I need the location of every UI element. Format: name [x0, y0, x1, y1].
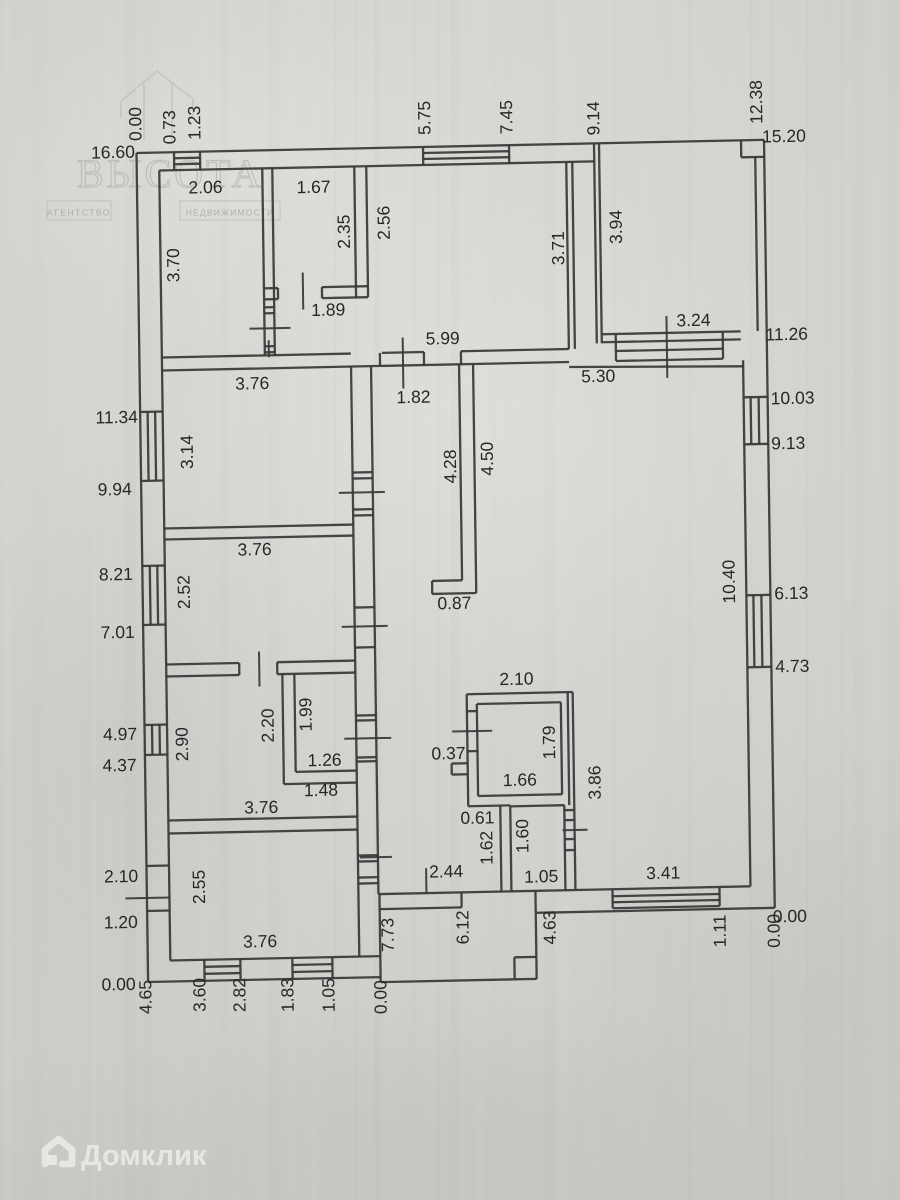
dimension tick left wall door	[125, 897, 170, 900]
wire exterior top wall inner face	[159, 161, 594, 170]
wall hall bottom upper face	[162, 354, 351, 358]
svg-text:1.89: 1.89	[311, 299, 345, 320]
wall wardrobe 1.99 bottom	[296, 771, 357, 772]
svg-text:1.48: 1.48	[304, 780, 338, 801]
wire exterior left wall outer face	[137, 153, 149, 982]
svg-text:3.76: 3.76	[243, 931, 277, 952]
svg-text:3.76: 3.76	[235, 373, 269, 394]
svg-text:2.55: 2.55	[189, 870, 209, 904]
window left wall (11.34-9.94)	[140, 410, 163, 413]
window left wall (4.97-4.37)	[145, 723, 168, 726]
wall toilet right inner	[564, 805, 565, 890]
svg-text:7.73: 7.73	[377, 918, 397, 952]
svg-text:0.73: 0.73	[159, 110, 179, 144]
svg-text:4.73: 4.73	[775, 656, 809, 677]
svg-text:1.79: 1.79	[539, 725, 559, 759]
dimension tick door kitchen	[342, 625, 388, 628]
wire exterior bottom-right wall inner face	[378, 886, 750, 894]
wire exterior right wall inner face upper	[755, 157, 757, 331]
dimension tick 2.44	[425, 868, 427, 893]
svg-text:2.20: 2.20	[257, 708, 277, 743]
svg-text:5.75: 5.75	[414, 101, 434, 135]
svg-text:11.26: 11.26	[765, 324, 808, 345]
dimension tick door room 2.55	[360, 856, 392, 859]
svg-text:10.40: 10.40	[718, 559, 739, 603]
wall bathroom bottom	[468, 804, 510, 807]
svg-text:3.76: 3.76	[237, 539, 271, 560]
svg-text:0.61: 0.61	[460, 807, 494, 828]
svg-text:8.21: 8.21	[99, 564, 133, 585]
window right wall (10.03-9.13)	[744, 396, 768, 399]
wall between rooms 2.90 and 2.55	[168, 817, 357, 821]
svg-text:1.62: 1.62	[476, 831, 496, 865]
dimension tick door toilet	[563, 829, 588, 832]
svg-text:4.50: 4.50	[477, 441, 497, 476]
svg-text:2.82: 2.82	[229, 978, 249, 1012]
svg-text:1.83: 1.83	[277, 978, 297, 1012]
svg-text:4.28: 4.28	[440, 449, 460, 483]
wall room 3.71 right side	[566, 162, 569, 349]
svg-text:4.97: 4.97	[103, 724, 137, 745]
wall toilet left	[500, 806, 501, 892]
window right wall (6.13-4.73)	[746, 594, 770, 597]
svg-text:9.14: 9.14	[583, 101, 603, 136]
dimension tick hall wall	[268, 340, 270, 357]
dimension tick door bathroom	[452, 730, 492, 733]
svg-text:1.20: 1.20	[104, 912, 139, 933]
wall bathroom left	[467, 694, 469, 806]
paper tonal blobs	[170, 170, 830, 690]
node top-right corner notch	[740, 140, 743, 157]
wall porch top inner	[380, 907, 462, 909]
svg-text:9.13: 9.13	[771, 433, 805, 454]
svg-text:0.00: 0.00	[101, 974, 136, 995]
wire exterior bottom-right wall outer face	[537, 908, 775, 913]
watermark: Domclick house icon	[45, 1139, 72, 1164]
door toilet jamb caps	[564, 809, 574, 812]
svg-text:3.24: 3.24	[676, 310, 711, 331]
svg-text:5.99: 5.99	[426, 328, 460, 349]
wall between rooms 3.14 and 2.52	[164, 525, 353, 529]
dimension tick door room 2.90	[344, 737, 391, 740]
wall central vertical left face	[351, 367, 359, 957]
flue notch 0.37	[452, 762, 468, 765]
wall corridor partition	[459, 364, 462, 580]
wire exterior top wall outer face	[137, 140, 765, 153]
svg-text:0.00: 0.00	[125, 107, 145, 142]
svg-text:2.52: 2.52	[174, 575, 194, 609]
wire exterior bottom-left wall outer face	[148, 977, 380, 982]
svg-text:1.66: 1.66	[503, 769, 537, 790]
door central wall room 3.14 caps	[353, 477, 373, 480]
svg-text:11.34: 11.34	[95, 407, 138, 428]
svg-text:0.87: 0.87	[437, 593, 471, 614]
watermark: АГЕНТСТВО box	[47, 201, 111, 220]
door room 2.06 jamb caps	[264, 306, 274, 309]
svg-text:3.76: 3.76	[244, 797, 278, 818]
wall toilet top	[510, 805, 564, 806]
wall room 3.94 bottom	[602, 331, 741, 334]
svg-text:1.05: 1.05	[524, 866, 558, 887]
sauna cabin box	[477, 702, 561, 704]
porch step	[514, 956, 536, 959]
door central wall room 2.90 caps	[356, 714, 376, 717]
svg-text:2.90: 2.90	[172, 727, 192, 762]
wire exterior left wall inner face	[159, 171, 170, 961]
door central wall room 2.55 caps	[358, 854, 378, 857]
window room 3.94 bottom (3.24)	[615, 334, 618, 361]
svg-text:7.45: 7.45	[496, 100, 516, 134]
watermark: agency logo house roof	[121, 71, 193, 140]
door central wall kitchen caps	[354, 606, 374, 609]
wall closet right side	[354, 166, 356, 297]
svg-text:4.37: 4.37	[102, 755, 136, 776]
door left wall (2.10-1.20) jamb caps	[146, 864, 169, 867]
svg-text:7.01: 7.01	[101, 622, 135, 643]
paper streak texture	[4, 0, 11, 1200]
svg-text:2.06: 2.06	[188, 177, 222, 198]
wire exterior bottom-left wall inner face	[170, 956, 380, 960]
svg-text:1.67: 1.67	[296, 177, 330, 198]
window bottom wall (3.60-2.82)	[203, 960, 206, 981]
svg-text:1.26: 1.26	[307, 749, 341, 770]
wall central vertical right face	[371, 366, 378, 894]
wall bathroom right	[573, 692, 576, 890]
wall hall bottom lower face	[162, 362, 569, 371]
wire living room top face	[569, 363, 743, 370]
svg-text:1.11: 1.11	[709, 914, 729, 947]
wire exterior right wall outer face	[764, 140, 775, 908]
svg-text:6.12: 6.12	[452, 910, 472, 944]
svg-text:1.23: 1.23	[184, 106, 204, 140]
svg-text:2.10: 2.10	[499, 668, 534, 689]
svg-text:2.44: 2.44	[429, 861, 464, 882]
window bottom wall 3.41	[611, 889, 614, 908]
svg-text:2.10: 2.10	[104, 866, 139, 887]
wall closet bottom	[322, 285, 368, 288]
svg-text:3.71: 3.71	[548, 231, 568, 265]
svg-text:3.94: 3.94	[606, 209, 626, 244]
svg-text:16.60: 16.60	[91, 142, 135, 163]
porch door stub left	[460, 892, 463, 907]
dimension tick door room 2.06	[249, 327, 290, 330]
dimension tick door 1.82	[402, 337, 405, 388]
svg-text:3.70: 3.70	[163, 248, 183, 283]
svg-text:0.37: 0.37	[431, 743, 465, 764]
svg-text:3.14: 3.14	[177, 435, 197, 470]
svg-text:6.13: 6.13	[774, 583, 808, 604]
svg-text:12.38: 12.38	[746, 80, 767, 124]
svg-text:1.60: 1.60	[512, 819, 532, 854]
svg-text:Домклик: Домклик	[81, 1140, 207, 1172]
svg-text:2.56: 2.56	[373, 206, 393, 240]
wall bathroom top	[467, 692, 573, 694]
svg-text:4.65: 4.65	[135, 980, 155, 1014]
svg-text:1.82: 1.82	[396, 387, 430, 408]
svg-text:3.86: 3.86	[584, 765, 604, 799]
svg-text:НЕДВИЖИМОСТИ: НЕДВИЖИМОСТИ	[186, 207, 275, 217]
dimension tick door closet 1.89	[302, 273, 305, 310]
door hall 1.82 jamb caps	[379, 353, 381, 366]
window top-left small (0.73-1.23)	[173, 152, 176, 170]
wire exterior right wall inner face lower	[743, 360, 750, 886]
wall room 3.94 left side	[594, 143, 597, 343]
wall porch bottom	[381, 979, 537, 982]
wall porch right	[535, 891, 536, 979]
svg-text:1.99: 1.99	[295, 697, 315, 731]
svg-text:3.41: 3.41	[646, 862, 680, 883]
svg-text:9.94: 9.94	[98, 479, 133, 500]
svg-text:15.20: 15.20	[762, 126, 806, 147]
svg-text:0.00: 0.00	[370, 980, 390, 1015]
window bottom wall (1.83-1.05)	[291, 958, 294, 979]
svg-text:2.35: 2.35	[334, 214, 354, 248]
wall corridor partition foot 0.87	[432, 579, 462, 582]
wall porch left 7.73	[379, 894, 380, 982]
wall between rooms 2.52 and 2.90 with door	[166, 663, 239, 665]
dimension tick door room 2.52-2.90	[258, 652, 260, 687]
svg-text:10.03: 10.03	[771, 387, 815, 408]
svg-text:5.30: 5.30	[581, 366, 616, 387]
door closet jamb caps	[264, 287, 278, 290]
svg-text:4.63: 4.63	[539, 910, 559, 944]
svg-text:1.05: 1.05	[318, 978, 338, 1012]
dimension tick window 3.24	[665, 316, 668, 378]
wall wardrobe 1.99 vertical	[282, 674, 284, 784]
wall room 2.06 right side	[262, 168, 265, 355]
watermark: НЕДВИЖИМОСТИ box	[180, 201, 280, 220]
svg-text:0.00: 0.00	[763, 913, 783, 948]
window left wall (8.21-7.01)	[142, 564, 165, 567]
door bathroom caps	[467, 710, 476, 712]
svg-text:АГЕНТСТВО: АГЕНТСТВО	[47, 207, 111, 217]
window top middle (5.75-7.45)	[422, 147, 425, 165]
dimension tick door room 3.14	[339, 491, 385, 494]
svg-text:3.60: 3.60	[189, 977, 209, 1012]
